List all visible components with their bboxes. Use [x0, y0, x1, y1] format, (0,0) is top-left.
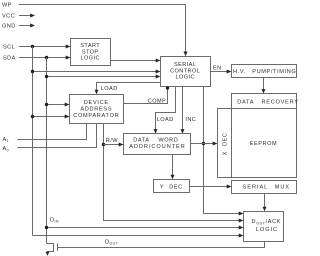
- svg-text:H.V. PUMP/TIMING: H.V. PUMP/TIMING: [233, 69, 296, 75]
- node junction DIN: [45, 226, 48, 229]
- svg-text:SERIAL MUX: SERIAL MUX: [243, 185, 290, 191]
- node junction COMP/serial bottom: [166, 86, 169, 89]
- wire A0 to comparator bottom: [17, 124, 96, 148]
- wire SCL rail to Dout/Ack logic: [33, 235, 240, 237]
- wire A1 to comparator bottom: [17, 124, 86, 140]
- wire DIN from SDA bus to Dout/Ack logic (left input 3): [47, 227, 240, 229]
- wire SCL vertical bus: [32, 47, 34, 236]
- svg-text:DATA RECOVERY: DATA RECOVERY: [237, 100, 299, 106]
- wire WP to serial control logic top: [19, 5, 186, 53]
- svg-text:X DEC: X DEC: [223, 133, 229, 156]
- svg-text:SDA: SDA: [3, 55, 16, 61]
- box U2 SERIAL CONTROL LOGIC: [161, 57, 211, 87]
- wire LOAD from serial control logic to data word counter: [156, 87, 176, 130]
- transistor Q1 gate bar: [57, 244, 59, 252]
- box U3 DEVICE ADDRESS COMPARATOR: [70, 95, 124, 124]
- svg-text:SCL: SCL: [3, 45, 15, 51]
- svg-text:EN: EN: [213, 66, 222, 72]
- svg-text:LOAD: LOAD: [101, 86, 118, 92]
- wire SDA to device address comparator: [47, 104, 66, 106]
- wire serial mux to Dout/Ack logic: [264, 194, 266, 208]
- wire SCL to device address comparator: [33, 116, 66, 118]
- wire SDA to start stop logic: [19, 57, 66, 59]
- node junction SDA/comparator: [45, 103, 48, 106]
- wire SCL to start stop logic: [19, 46, 66, 48]
- wire INC from serial control logic to data word counter: [182, 87, 184, 130]
- svg-text:SERIAL: SERIAL: [174, 62, 196, 68]
- wire SCL to serial control logic: [33, 71, 158, 73]
- svg-text:LOAD: LOAD: [157, 117, 174, 123]
- wire serial control logic to Dout/Ack logic (left input 1): [204, 87, 240, 214]
- node junction serial/xdec line: [202, 142, 205, 145]
- svg-text:LOGIC: LOGIC: [175, 75, 194, 81]
- transistor Q1 source arrow to ground: [46, 252, 50, 256]
- wire DOUT from Dout/Ack logic to output transistor gate: [58, 242, 265, 248]
- wire data word counter to Y DEC: [172, 155, 174, 176]
- box U8 X DEC: [218, 109, 232, 178]
- wire EN serial control logic to HV pump: [211, 71, 228, 73]
- svg-text:INC: INC: [185, 117, 196, 123]
- wire HV pump to data recovery: [263, 78, 265, 90]
- svg-text:STOP: STOP: [82, 49, 99, 55]
- svg-text:Y DEC: Y DEC: [160, 185, 183, 191]
- box U5 DATA RECOVERY: [232, 94, 297, 109]
- svg-text:ADDR/COUNTER: ADDR/COUNTER: [129, 144, 185, 150]
- svg-text:R/W: R/W: [106, 138, 118, 144]
- svg-text:GND: GND: [2, 24, 16, 30]
- svg-text:LOGIC: LOGIC: [80, 56, 99, 62]
- box U11 Dout/Ack logic: [244, 212, 284, 242]
- svg-text:DOUT/ACK: DOUT/ACK: [252, 219, 282, 225]
- svg-text:VCC: VCC: [2, 13, 15, 19]
- wire LOAD from serial control logic to comparator: [97, 83, 161, 91]
- svg-text:WP: WP: [2, 3, 12, 9]
- svg-text:COMPARATOR: COMPARATOR: [73, 113, 119, 119]
- box U6 DATA WORD ADDR/COUNTER: [124, 134, 191, 155]
- svg-text:CONTROL: CONTROL: [170, 68, 200, 74]
- transistor Q1 output driver channel: [47, 244, 54, 253]
- wire SDA vertical bus: [46, 58, 48, 244]
- wire data word counter to X DEC: [191, 143, 214, 145]
- wire R/W to data word counter: [104, 144, 120, 146]
- box U10 SERIAL MUX: [232, 181, 297, 194]
- wire start stop logic to serial control logic: [111, 60, 158, 62]
- svg-text:COMP: COMP: [148, 98, 166, 104]
- svg-text:LOGIC: LOGIC: [256, 227, 278, 233]
- node junction R/W branch: [102, 143, 105, 146]
- svg-text:DEVICE: DEVICE: [84, 100, 109, 106]
- wire Y DEC to serial mux: [190, 186, 228, 188]
- node junction SCL/comparator: [31, 115, 34, 118]
- wire GND arrow: [19, 25, 31, 27]
- wire R/W from comparator down to Dout/Ack logic (left input 2): [104, 124, 240, 221]
- wire COMP from comparator to serial control logic: [124, 87, 168, 104]
- node SDA junction on pin line: [45, 56, 48, 59]
- node junction SCL/serial: [31, 70, 34, 73]
- box U7 Y DEC: [154, 180, 190, 193]
- svg-text:DATA WORD: DATA WORD: [133, 138, 178, 144]
- box U1 START STOP LOGIC: [71, 39, 111, 66]
- box U9 EEPROM: [232, 109, 297, 178]
- svg-text:EEPROM: EEPROM: [250, 141, 278, 147]
- node junction SDA/serial: [45, 75, 48, 78]
- node SCL junction on pin line: [31, 45, 34, 48]
- wire SDA to serial control logic: [47, 76, 158, 78]
- wire VCC arrow: [19, 15, 31, 17]
- svg-text:START: START: [80, 43, 100, 49]
- svg-text:ADDRESS: ADDRESS: [80, 106, 112, 112]
- box U4 H.V. PUMP/TIMING: [232, 65, 297, 78]
